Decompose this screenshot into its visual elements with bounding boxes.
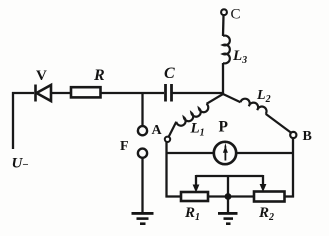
ground below F	[132, 212, 154, 225]
wire center drop to ground	[227, 175, 229, 213]
wire L3 lower	[222, 63, 224, 94]
meter needle	[223, 143, 228, 161]
meter P	[214, 142, 236, 164]
svg-text:A: A	[152, 123, 163, 138]
svg-text:C: C	[231, 7, 241, 23]
wire meter right to B rail	[236, 152, 294, 154]
svg-text:L3: L3	[232, 48, 247, 66]
resistor R	[71, 87, 101, 97]
wiper arrowhead R2	[260, 184, 267, 192]
svg-text:P: P	[219, 119, 229, 136]
wire meter branch left	[167, 152, 215, 154]
node F terminal	[138, 149, 147, 158]
capacitor C	[166, 84, 172, 102]
resistor R1	[181, 192, 208, 201]
svg-text:R1: R1	[184, 205, 200, 223]
wire capacitor to junction	[172, 92, 225, 94]
wire F to ground	[141, 158, 143, 213]
svg-text:C: C	[164, 65, 175, 82]
wire R to capacitor	[101, 92, 165, 94]
wire left rail U-	[12, 92, 14, 149]
terminal C	[221, 9, 227, 15]
wiper arrow R1	[195, 175, 197, 186]
svg-text:L2: L2	[256, 88, 271, 105]
wire wiper bus	[196, 175, 263, 177]
node of L1 bottom	[165, 137, 170, 142]
resistor R2	[254, 192, 285, 202]
svg-text:F: F	[120, 139, 129, 154]
node B terminal	[290, 132, 296, 138]
inductor L2	[223, 94, 291, 133]
svg-text:B: B	[303, 129, 312, 144]
wire diode to R	[51, 92, 71, 94]
wire L3 to terminal C	[222, 16, 225, 37]
diode V	[36, 85, 52, 102]
wire rail to R1	[166, 195, 182, 197]
junction dot	[225, 193, 232, 200]
wiper arrowhead R1	[193, 185, 200, 193]
svg-text:L1: L1	[190, 121, 205, 139]
svg-text:R2: R2	[258, 205, 274, 223]
svg-text:R: R	[93, 67, 105, 84]
svg-text:V: V	[36, 68, 47, 84]
inductor L1	[169, 94, 223, 137]
wire drop to node A	[141, 93, 143, 126]
node A terminal	[138, 126, 147, 135]
ground below junction	[218, 212, 238, 225]
wire B rail	[292, 138, 294, 198]
wire main left to diode	[12, 92, 34, 94]
wire R1 to junction to R2	[208, 195, 254, 197]
wiper arrow R2	[262, 175, 264, 185]
wire B rail to R2	[284, 195, 294, 197]
wire left bottom rail	[165, 142, 167, 198]
svg-text:U−: U−	[12, 156, 29, 172]
inductor L3	[223, 36, 230, 64]
